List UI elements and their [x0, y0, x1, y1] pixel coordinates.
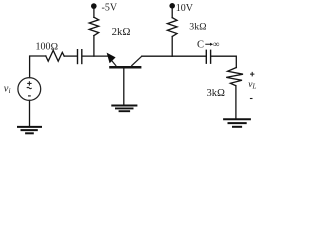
svg-text:2kΩ: 2kΩ: [112, 26, 131, 38]
transistor Q1 (common-base NPN): [107, 53, 142, 68]
wire: 2k resistor down to emitter wire junction: [93, 36, 95, 57]
ground (under source): [17, 127, 42, 133]
label + (load polarity): [250, 72, 254, 77]
svg-text:-5V: -5V: [102, 3, 118, 14]
wire: collector horizontal run to output capacitor: [142, 55, 206, 57]
base bar: [109, 66, 141, 69]
supply node -5V (filled terminal dot): [91, 3, 97, 9]
ground (under transistor base): [111, 106, 137, 112]
emitter arrowhead: [107, 53, 116, 64]
svg-text:3kΩ: 3kΩ: [189, 21, 207, 32]
svg-text:3kΩ: 3kΩ: [207, 88, 226, 99]
supply node 10V (filled terminal dot): [169, 3, 175, 9]
wire: input elbow, source to 100-ohm resistor: [30, 56, 46, 78]
label - (load polarity): [250, 98, 253, 100]
wire: 3k resistor down to collector wire: [171, 37, 173, 57]
wire: transistor base down to ground: [123, 68, 125, 105]
resistor 2k (zigzag vertical): [89, 17, 99, 35]
svg-text:∞: ∞: [213, 39, 219, 49]
AC source vi (circle with + ~ -): [18, 78, 41, 101]
collector lead: [131, 56, 142, 66]
wire: source circle bottom to ground: [29, 100, 31, 126]
wire: capacitor to emitter node (junction with 2k branch): [82, 55, 107, 57]
capacitor C1 (input coupling) plates: [77, 50, 79, 64]
svg-text:C: C: [197, 39, 204, 50]
ground (under load): [223, 119, 251, 127]
wire: 10V supply stem: [171, 8, 173, 17]
resistor 3k load (zigzag vertical wide): [226, 68, 243, 86]
wire: output capacitor to load elbow: [211, 56, 236, 67]
wire: 100 ohm to input capacitor: [64, 55, 77, 57]
wire: -5V supply stem: [93, 8, 95, 17]
wire: load resistor to ground: [235, 86, 237, 119]
svg-text:100Ω: 100Ω: [36, 41, 59, 52]
capacitor C (output, C to infinity) plates: [205, 50, 207, 63]
svg-text:10V: 10V: [176, 3, 194, 14]
svg-text:vL: vL: [248, 80, 256, 90]
resistor 3k collector (zigzag vertical): [167, 18, 177, 37]
emitter lead: [108, 56, 116, 66]
resistor 100 ohm (zigzag): [46, 50, 64, 61]
svg-text:vi: vi: [4, 84, 11, 95]
